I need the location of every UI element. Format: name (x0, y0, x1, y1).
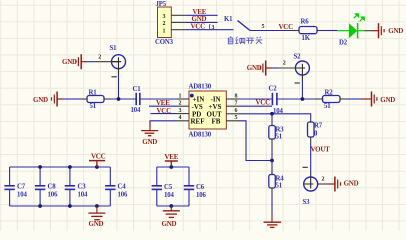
resistor R4 51 (269, 161, 284, 195)
svg-text:104: 104 (78, 192, 88, 199)
svg-text:2: 2 (322, 177, 325, 183)
svg-text:7: 7 (235, 101, 238, 107)
wire C1 to +IN pin1 (140, 98, 177, 100)
svg-text:1: 1 (179, 93, 182, 99)
capacitor C1 104 (131, 86, 142, 114)
wire S2 down to node B (301, 75, 303, 81)
svg-text:1K: 1K (302, 35, 311, 42)
pin 5 stub (FB) (226, 120, 238, 122)
svg-text:6: 6 (235, 108, 238, 114)
wire R6 to D2 (324, 30, 337, 32)
svg-text:VCC: VCC (279, 23, 294, 31)
power port VCC (bank 1) (89, 161, 105, 167)
wire top rail (VEE cap bank) (157, 166, 189, 168)
pin 4 stub (REF) (177, 120, 190, 122)
svg-text:S3: S3 (303, 199, 311, 206)
wire VCC to pin3 (151, 113, 177, 115)
svg-text:C8: C8 (48, 184, 57, 191)
wire REF pin4 to ground (150, 121, 177, 128)
switch K1 (self-locking) (224, 16, 250, 30)
svg-text:R2: R2 (325, 89, 334, 96)
capacitor C5 104 (152, 167, 175, 206)
wire FB pin5 to node D (239, 121, 273, 161)
capacitor C8 106 (35, 167, 58, 206)
wire pin8 to C2 (239, 98, 273, 100)
power port VEE (bank 2) (165, 161, 178, 167)
resistor R6 1K (292, 19, 324, 42)
svg-text:4: 4 (179, 115, 182, 121)
svg-text:5: 5 (235, 115, 238, 121)
wire bottom rail (VCC cap bank) (10, 205, 111, 207)
resistor R7 0 (308, 116, 323, 143)
wire bottom rail (VEE cap bank) (157, 205, 189, 207)
svg-text:FB: FB (212, 118, 221, 126)
power port GND (left of S1) (76, 54, 87, 69)
capacitor C2 104 (269, 86, 284, 116)
svg-text:106: 106 (118, 192, 128, 199)
power port GND (left of R1) (52, 92, 65, 107)
svg-text:106: 106 (48, 192, 58, 199)
svg-text:2: 2 (98, 54, 101, 60)
svg-text:AD8130: AD8130 (189, 84, 212, 91)
svg-text:S2: S2 (294, 54, 302, 61)
svg-text:C3: C3 (78, 184, 87, 191)
wire GND to R1 (64, 98, 80, 100)
svg-text:51: 51 (276, 133, 283, 140)
svg-text:R1: R1 (89, 89, 98, 96)
connector S3 (303, 177, 318, 206)
ground (bank 2) (163, 206, 180, 217)
ground (bank 1) (88, 206, 105, 220)
pin 2 wire of S3 to GND (318, 183, 328, 185)
resistor R3 51 (269, 120, 284, 146)
wire net VCC from JP5 pin1 to K1 (185, 29, 233, 31)
wire OUT pin6 to R7 corner (239, 114, 311, 116)
svg-text:VCC: VCC (191, 23, 206, 31)
wire top rail (VCC cap bank) (10, 166, 111, 168)
svg-text:2: 2 (163, 21, 166, 27)
wire R1 to C1 (111, 98, 136, 100)
svg-text:GND: GND (62, 58, 77, 66)
power port GND (right of S3) (329, 177, 341, 192)
wire node C down to R3 (271, 114, 273, 120)
wire S1 down to node A (118, 69, 120, 75)
svg-text:3: 3 (212, 25, 215, 31)
svg-text:C5: C5 (164, 184, 173, 191)
power port GND (right of D2) (371, 23, 384, 38)
svg-text:8: 8 (235, 93, 238, 99)
svg-text:GND: GND (33, 96, 48, 104)
wire R3 to node D (271, 145, 273, 161)
svg-text:GND: GND (388, 27, 403, 35)
wire R4 down to ground (271, 194, 273, 214)
wire R7 to S3 (310, 143, 312, 172)
svg-text:K1: K1 (224, 16, 233, 23)
svg-text:104: 104 (131, 107, 141, 114)
svg-text:C1: C1 (133, 86, 142, 93)
svg-text:3: 3 (163, 14, 166, 20)
svg-text:C6: C6 (196, 184, 205, 191)
junction dots on VCC bank rails (38, 165, 42, 169)
junction dots on VEE bank rails (169, 165, 173, 169)
svg-text:C7: C7 (17, 184, 26, 191)
wire K1 to R6 (250, 30, 292, 32)
svg-text:51: 51 (276, 182, 283, 189)
svg-text:GND: GND (162, 220, 177, 228)
pin 7 stub (+VS) (226, 105, 238, 107)
pin 8 stub (-IN) (226, 98, 238, 100)
svg-text:GND: GND (89, 220, 104, 228)
svg-text:2: 2 (283, 61, 286, 67)
pin 1 dash label of S3 (303, 166, 308, 168)
svg-text:REF: REF (191, 118, 205, 126)
power port GND (right of R2) (362, 92, 377, 107)
svg-text:1: 1 (163, 28, 166, 34)
pin 1 dash label of S2 (295, 82, 300, 84)
capacitor C4 106 (105, 167, 128, 206)
wire C2 to node B (277, 98, 316, 100)
LED D2 (337, 14, 365, 47)
capacitor C7 104 (4, 167, 27, 206)
svg-text:VCC: VCC (256, 98, 271, 106)
pin 3 stub (PD) (177, 113, 190, 115)
resistor R2 51 (316, 89, 348, 110)
svg-text:51: 51 (324, 103, 331, 110)
node B junction (301, 97, 305, 101)
node D junction (R3/R4/FB) (270, 159, 274, 163)
svg-text:GND: GND (142, 138, 157, 146)
svg-text:VCC: VCC (91, 153, 106, 161)
svg-text:JP5: JP5 (156, 1, 167, 8)
svg-text:S1: S1 (110, 45, 118, 52)
connector JP5 (155, 1, 174, 46)
svg-text:GND: GND (380, 96, 395, 104)
capacitor C3 104 (65, 167, 88, 206)
svg-text:104: 104 (164, 192, 174, 199)
svg-text:R6: R6 (301, 19, 310, 26)
svg-text:VOUT: VOUT (311, 146, 331, 154)
svg-text:C4: C4 (118, 184, 127, 191)
pin 1 dash label of S1 (112, 76, 117, 78)
svg-text:51: 51 (90, 103, 97, 110)
pin 3 stub of JP5 (171, 14, 185, 16)
svg-text:VEE: VEE (165, 153, 179, 161)
svg-text:VCC: VCC (157, 107, 172, 115)
ground (REF) (141, 122, 158, 136)
wire net GND from JP5 pin2 (185, 21, 217, 23)
pin 2 stub of JP5 (171, 21, 185, 23)
svg-text:R3: R3 (276, 126, 285, 133)
connector S1 (110, 45, 126, 69)
svg-text:R4: R4 (276, 175, 285, 182)
node A junction (117, 97, 121, 101)
pin 6 stub (OUT) (226, 113, 238, 115)
connector S2 (294, 54, 310, 76)
resistor R1 51 (80, 89, 111, 110)
label: Chinese text (self-lock switch) (228, 36, 262, 44)
wire net VEE from JP5 pin3 (185, 14, 217, 16)
pin 2 stub (-VS) (177, 105, 190, 107)
pin 1 stub (+IN) (177, 98, 190, 100)
pin 1 stub of JP5 (171, 29, 185, 31)
svg-text:CON3: CON3 (155, 39, 174, 46)
svg-text:106: 106 (196, 192, 206, 199)
svg-text:2: 2 (179, 101, 182, 107)
svg-text:GND: GND (344, 179, 359, 187)
svg-text:C2: C2 (269, 86, 278, 93)
node C junction (OUT / R3) (270, 112, 274, 116)
svg-text:AD8130: AD8130 (189, 132, 212, 139)
wire VEE to pin2 (149, 105, 177, 107)
pin 2 wire into S1 (87, 61, 95, 63)
svg-text:104: 104 (17, 192, 27, 199)
op-amp U1 AD8130 (189, 84, 227, 139)
wire R2 to GND port (347, 98, 362, 100)
capacitor C6 106 (184, 167, 207, 206)
pin 2 wire into S2 (272, 67, 280, 69)
svg-text:D2: D2 (339, 40, 348, 47)
wire pin7 to VCC label (239, 105, 273, 107)
power port GND (left of S2) (260, 61, 271, 76)
svg-text:5: 5 (262, 24, 265, 30)
svg-text:R7: R7 (314, 122, 323, 129)
svg-text:GND: GND (247, 64, 262, 72)
wire D2 to GND (365, 30, 372, 32)
ground (below R4) (264, 214, 282, 228)
svg-text:3: 3 (179, 108, 182, 114)
